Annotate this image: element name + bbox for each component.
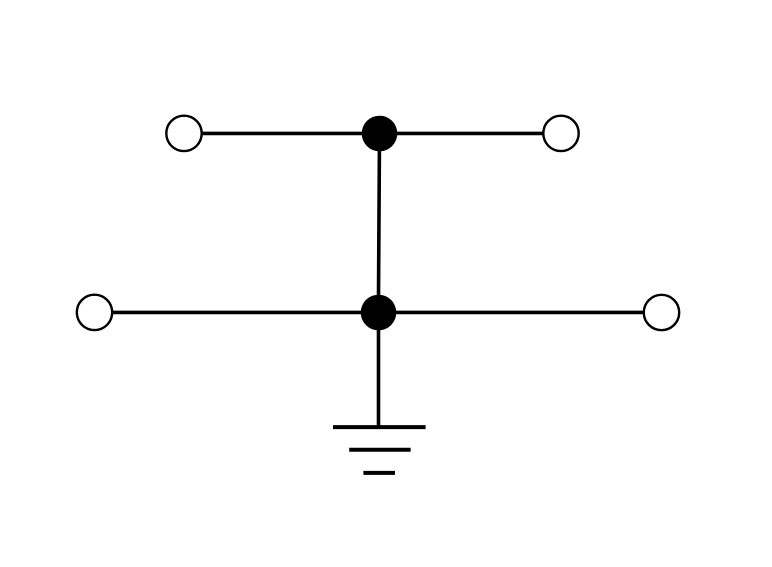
terminal T3 (bottom-left open circle)	[77, 295, 112, 330]
wire junction J2 to T4 (bottom-right horizontal segment)	[379, 311, 645, 315]
terminal T2 (top-right open circle)	[543, 116, 578, 151]
ground symbol: bottom bar	[363, 471, 395, 475]
junction J2 (bottom solder dot)	[361, 295, 397, 331]
wire J2 to ground (vertical segment)	[377, 313, 381, 429]
wire T3 to junction J2 (bottom-left horizontal segment)	[112, 311, 379, 315]
ground symbol: middle bar	[349, 448, 410, 452]
ground symbol: top bar	[333, 425, 426, 429]
wire T1 to junction J1 (top-left horizontal segment)	[202, 132, 380, 136]
terminal T4 (bottom-right open circle)	[644, 295, 679, 330]
terminal T1 (top-left open circle)	[166, 116, 201, 151]
junction J1 (top solder dot)	[362, 116, 398, 152]
wire jumper J1 to J2 (vertical segment)	[378, 134, 379, 313]
wire junction J1 to T2 (top-right horizontal segment)	[379, 132, 543, 136]
